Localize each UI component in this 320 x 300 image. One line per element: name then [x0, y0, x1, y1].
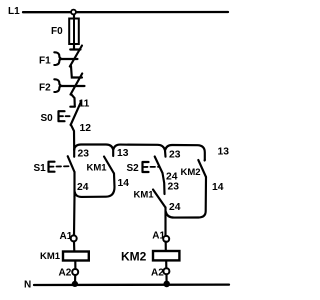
terminal A2 (KM1): [72, 269, 78, 275]
contact KM1 23-24 (NO series): [153, 190, 166, 208]
svg-text:S0: S0: [41, 113, 54, 124]
wire A1 to coil KM2: [165, 242, 167, 251]
svg-text:N: N: [24, 280, 31, 291]
svg-text:KM2: KM2: [181, 167, 201, 178]
svg-text:12: 12: [80, 123, 92, 134]
contact KM1 13-14 (NO self-hold): [104, 150, 114, 174]
pushbutton S0 (NC stop): [41, 102, 82, 125]
svg-text:23: 23: [169, 150, 181, 161]
svg-text:A2: A2: [151, 267, 164, 278]
svg-text:13: 13: [218, 147, 230, 158]
junction dot KM2-N: [163, 281, 170, 288]
svg-text:F2: F2: [39, 83, 51, 94]
wire S1 bottom terminal: [73, 172, 75, 197]
terminal A1 (KM2): [163, 236, 169, 242]
svg-text:KM1: KM1: [134, 190, 155, 201]
junction dot KM1-N: [72, 281, 78, 287]
wire coil KM2 to A2: [165, 261, 167, 268]
svg-text:KM1: KM1: [40, 251, 61, 262]
svg-text:23: 23: [78, 149, 90, 160]
svg-text:24: 24: [169, 202, 181, 213]
overload contact F1: [39, 46, 82, 67]
wire S0 to rung junction: [71, 125, 74, 151]
svg-text:KM2: KM2: [121, 250, 147, 264]
node terminal on L1: [71, 10, 76, 15]
svg-text:A2: A2: [59, 267, 72, 278]
coil KM1: [63, 252, 89, 261]
svg-text:L1: L1: [8, 6, 20, 17]
wire A2 to N rail: [74, 275, 76, 285]
coil KM2: [153, 251, 179, 260]
svg-text:KM1: KM1: [87, 163, 108, 174]
wire N rail: [34, 283, 229, 286]
wire L1 rail: [23, 11, 228, 13]
svg-text:23: 23: [168, 182, 180, 193]
wire humped branch rail after S0: [74, 145, 205, 161]
svg-text:F0: F0: [51, 26, 63, 37]
contact KM2 13-14 (NO self-hold): [198, 160, 206, 177]
svg-text:13: 13: [117, 148, 129, 159]
svg-text:S2: S2: [127, 163, 140, 174]
svg-text:F1: F1: [39, 56, 51, 67]
wire A1 to coil: [73, 241, 75, 251]
wire F2 to S0: [71, 94, 75, 107]
wire F1 to F2: [71, 66, 74, 78]
svg-text:S1: S1: [34, 163, 47, 174]
pushbutton S2 (NO start): [127, 150, 166, 174]
svg-text:24: 24: [77, 182, 89, 193]
wire KM2 13-14 branch return: [166, 177, 206, 218]
wire A2 to N rail (KM2): [165, 274, 167, 284]
overload contact F2: [39, 74, 85, 95]
terminal A1 (KM1): [71, 235, 77, 241]
pushbutton S1 (NO start): [34, 150, 75, 175]
wire S2 bottom / KM1 23 terminal: [163, 173, 165, 194]
wire coil to A2: [74, 261, 76, 271]
terminal A2 (KM2): [163, 268, 169, 274]
svg-text:14: 14: [118, 178, 130, 189]
wire KM1 series bottom to coil KM2: [164, 208, 166, 236]
wire to coil KM1: [73, 197, 76, 236]
svg-text:14: 14: [212, 182, 224, 193]
wire from L1 node to fuse: [73, 14, 75, 49]
fuse F0: [69, 19, 79, 45]
wire KM1 13-14 branch return: [75, 174, 115, 197]
